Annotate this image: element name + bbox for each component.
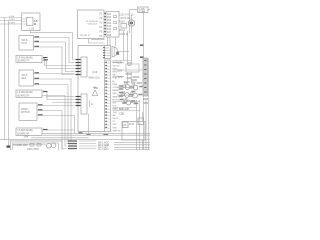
resistor RG1 — [30, 144, 34, 146]
svg-text:VDD 5V: VDD 5V — [113, 65, 121, 67]
wire br h1 — [113, 107, 137, 109]
svg-text:R102 220: R102 220 — [121, 18, 132, 20]
wire from J1 down — [31, 31, 75, 60]
svg-text:C102 10: C102 10 — [120, 34, 129, 36]
svg-text:MOTOR: MOTOR — [113, 99, 121, 101]
wire LP1 out a — [42, 59, 75, 66]
motor block M1 — [19, 103, 37, 121]
wire LP2 out b — [42, 96, 67, 147]
wire bar out 1 — [79, 140, 96, 142]
wire X1 left — [130, 10, 138, 33]
connector CN2 — [81, 94, 87, 114]
svg-text:SENS 2V: SENS 2V — [113, 96, 122, 98]
svg-text:1.2V: 1.2V — [118, 77, 123, 79]
label M1 p1 — [38, 104, 43, 105]
svg-text:R103: R103 — [119, 22, 125, 24]
wire br bh1 — [114, 141, 150, 143]
tiny texts — [14, 9, 146, 152]
small box BR2 — [123, 122, 129, 128]
label LP1 outb — [44, 59, 49, 60]
svg-text:LP-801 (MAIN): LP-801 (MAIN) — [18, 57, 34, 60]
transistor Q1 — [125, 85, 130, 90]
label M1 p3 — [38, 114, 43, 115]
resistor RG2 — [37, 144, 41, 146]
CN1 pins — [76, 59, 81, 60]
label box LP3 — [16, 128, 42, 136]
transistor Q2 — [133, 85, 138, 90]
svg-text:SW-B: SW-B — [22, 40, 28, 42]
svg-text:4.19M: 4.19M — [139, 11, 145, 13]
svg-text:L-05: L-05 — [30, 29, 35, 31]
transistor Q5 — [126, 100, 131, 105]
svg-text:FL DISPLAY: FL DISPLAY — [86, 20, 99, 23]
wire right vbus c — [131, 15, 133, 64]
big box BR — [122, 122, 145, 141]
wire bottom bus — [0, 139, 150, 141]
wire q connect 2 — [117, 94, 133, 96]
svg-text:OSC: OSC — [113, 124, 118, 126]
gate D1 — [112, 47, 118, 57]
svg-text:SOL: SOL — [113, 103, 117, 105]
component on loop top — [128, 63, 131, 66]
svg-text:R15: R15 — [107, 26, 112, 28]
label SW2 p3 — [35, 83, 40, 84]
svg-text:PAUSE: PAUSE — [113, 89, 120, 92]
wire SW1 pin1 — [34, 38, 75, 63]
cluster mid dark marks — [131, 87, 134, 88]
wire amp internal — [13, 144, 46, 146]
wire LP3 out a — [42, 129, 75, 131]
wire br bh3 — [114, 146, 150, 148]
cluster top marks — [124, 82, 129, 83]
svg-text:TUN: TUN — [113, 112, 118, 114]
transistor Q4 — [133, 93, 138, 98]
wire input 1 — [0, 17, 22, 19]
wire B2 to B3 — [104, 12, 106, 14]
svg-text:FIP-9B5 KT: FIP-9B5 KT — [80, 35, 91, 37]
wire br v3 — [142, 112, 144, 122]
wire bus h1 — [42, 133, 150, 135]
svg-text:R12: R12 — [107, 17, 112, 19]
wire br bh4 — [114, 149, 150, 151]
svg-text:AM: AM — [113, 114, 116, 117]
label SW2 p1 — [35, 72, 40, 73]
main connector strip CN5 — [105, 60, 111, 132]
resistor cluster marks — [119, 86, 143, 105]
connector CN-top — [105, 46, 111, 59]
x143 tick labels — [140, 45, 143, 58]
svg-text:SW-A: SW-A — [22, 74, 28, 77]
wire br v2 — [139, 100, 141, 150]
wire br v3b — [142, 140, 144, 150]
component R box in B3 annex — [121, 24, 127, 29]
svg-text:Q801 Q802: Q801 Q802 — [27, 149, 40, 150]
wire LP2 out a — [42, 92, 75, 100]
svg-text:MT/DC: MT/DC — [21, 109, 29, 111]
display block B2 — [78, 10, 105, 39]
junction labels on bus — [79, 132, 83, 133]
svg-text:POWER AMP: POWER AMP — [14, 144, 29, 147]
svg-text:R13: R13 — [107, 20, 112, 22]
svg-text:LP-803 (MAIN): LP-803 (MAIN) — [18, 129, 34, 132]
svg-text:4 BLK: 4 BLK — [9, 16, 15, 18]
ground blob in amp box — [7, 146, 11, 148]
svg-text:R17: R17 — [107, 32, 112, 34]
svg-text:VREF 1V: VREF 1V — [113, 130, 122, 132]
wire LP1 out b — [42, 61, 75, 69]
label SW1 p1 — [35, 36, 40, 37]
wire 1.4V — [31, 137, 89, 139]
small box D2 — [138, 118, 144, 125]
transistor Q3 — [125, 93, 130, 98]
svg-text:BOARD 5P: BOARD 5P — [18, 95, 30, 98]
wire q connect 3 — [130, 102, 137, 104]
wire SW1 pin3 — [34, 47, 75, 75]
label SW2 p2 — [35, 78, 40, 79]
wire bar out 2 — [79, 143, 96, 145]
switch block SW2 — [19, 70, 34, 86]
pin labels dark marks — [7, 16, 81, 149]
CN-top rungs — [105, 48, 110, 56]
svg-text:PLAY: PLAY — [22, 42, 28, 45]
amp block outer box — [11, 141, 63, 153]
label SW1 p3 — [35, 46, 40, 47]
wire br v1 — [136, 100, 138, 150]
svg-text:C101 4.7K 1/2: C101 4.7K 1/2 — [119, 15, 134, 17]
svg-text:BOARD 7P: BOARD 7P — [18, 60, 30, 63]
svg-text:MAIN (1/2): MAIN (1/2) — [89, 77, 100, 80]
label box LP1 — [16, 56, 42, 63]
svg-text:PLAY: PLAY — [113, 77, 118, 80]
svg-text:REC: REC — [22, 78, 27, 80]
wire strip out mid — [113, 101, 140, 103]
svg-text:REC: REC — [113, 75, 118, 77]
svg-text:R-40: R-40 — [129, 124, 135, 126]
strip right labels — [113, 62, 122, 132]
label LP2 p1 — [43, 91, 48, 92]
svg-text:3.3V: 3.3V — [118, 63, 123, 65]
triangle warning — [92, 90, 98, 95]
wire right vbus b — [127, 31, 129, 64]
svg-text:R16: R16 — [107, 29, 112, 31]
svg-text:GND: GND — [113, 127, 118, 129]
svg-text:D101: D101 — [120, 30, 126, 32]
wire M1 pin3 — [37, 116, 75, 134]
main strip internals — [105, 62, 107, 128]
svg-text:TP-1: TP-1 — [94, 87, 98, 89]
wire strip to right b — [113, 61, 125, 63]
svg-text:BOARD 4P: BOARD 4P — [18, 133, 30, 136]
wire strip to right d — [113, 76, 125, 78]
IC05 inner box — [27, 18, 34, 26]
label box LP2 — [16, 90, 42, 98]
wire q connect 1 — [117, 87, 133, 89]
svg-text:KEY1: KEY1 — [113, 68, 118, 70]
label SW1 p2 — [35, 41, 40, 42]
wire strip to right a — [113, 60, 132, 62]
transistor Q11 — [51, 143, 56, 148]
svg-text:FM 0V: FM 0V — [113, 118, 119, 120]
wire strip to right c — [113, 69, 144, 71]
wire SW2 pin2 — [34, 79, 72, 141]
wire br h2 — [113, 110, 140, 112]
capacitor text under loop — [126, 74, 131, 75]
svg-text:MUTE: MUTE — [113, 62, 119, 64]
wire J1 inner stubs — [22, 19, 27, 24]
wire SW2 pin1 — [34, 73, 75, 75]
wire M1 pin2 — [37, 111, 67, 149]
svg-text:C201: C201 — [119, 114, 125, 116]
wire CN2 down — [88, 114, 90, 134]
label LP1 outa — [43, 57, 48, 58]
wire br bh2 — [114, 144, 150, 146]
wire X1 right — [148, 9, 150, 11]
label M1 p2 — [38, 109, 43, 110]
wire vbus below loop — [127, 72, 129, 84]
wire bar out 4 — [79, 148, 96, 150]
svg-text:R201 10K: R201 10K — [119, 109, 130, 111]
bottom pin cluster — [68, 140, 77, 149]
wire CN2 extra — [46, 96, 75, 98]
svg-text:5.0V: 5.0V — [118, 71, 123, 73]
wire right edge v2 — [145, 100, 147, 150]
CN-top left pin dashes — [103, 47, 105, 58]
svg-text:BEAM: BEAM — [113, 108, 119, 111]
wire B2 to CNtop b — [92, 39, 105, 40]
transistor Q10 — [47, 144, 52, 149]
wire right edge v1 — [143, 96, 145, 150]
svg-text:R14: R14 — [107, 23, 112, 25]
small component boxes cluster — [122, 85, 134, 102]
transistor Q101 — [128, 20, 134, 26]
svg-text:2 WHT: 2 WHT — [9, 23, 16, 25]
label LP3 p1 — [43, 129, 48, 130]
svg-text:R18: R18 — [107, 35, 112, 37]
svg-text:CN-4 SDA: CN-4 SDA — [98, 149, 109, 150]
switch block SW1 — [19, 36, 34, 51]
svg-text:KEY2: KEY2 — [113, 72, 118, 74]
wire input 3 — [0, 23, 22, 25]
wire right edge v3 — [148, 58, 150, 150]
B3 left pin dashes — [104, 13, 106, 35]
wire bus h2 — [43, 134, 150, 136]
wire loop box — [126, 64, 139, 72]
wire left bus 2 — [8, 21, 10, 148]
connector CN1 — [81, 57, 87, 77]
wire M1 pin1 — [37, 105, 75, 107]
svg-text:REW: REW — [113, 84, 118, 86]
svg-text:Q-09: Q-09 — [92, 72, 98, 74]
right tall strip dashes — [144, 60, 146, 93]
crystal X1 box — [138, 7, 149, 13]
svg-text:LP-802 (MAIN): LP-802 (MAIN) — [18, 91, 34, 94]
MAIN board outline — [78, 46, 105, 132]
wire input 2 — [0, 20, 22, 22]
svg-text:MOTOR: MOTOR — [21, 112, 30, 114]
wire bar out 3 — [79, 145, 96, 147]
right tall strip — [143, 58, 148, 96]
wire SW1 pin2 — [34, 42, 75, 72]
wire right v x143 — [143, 13, 145, 59]
strip rungs — [105, 60, 111, 131]
wire right vbus a — [123, 31, 125, 61]
connector J1 outer box — [22, 13, 41, 31]
wire left bus 1 — [4, 18, 6, 140]
svg-text:LED: LED — [113, 106, 117, 108]
bracket 4x — [89, 101, 91, 108]
svg-text:STOP: STOP — [113, 87, 119, 89]
wire B2 to CNtop a — [89, 39, 105, 44]
IC B3 box — [106, 12, 119, 38]
wires B3 to board — [108, 37, 116, 46]
svg-text:9-BG-204: 9-BG-204 — [88, 24, 98, 26]
svg-text:3 RED: 3 RED — [9, 19, 15, 21]
svg-text:1.4V: 1.4V — [24, 137, 29, 139]
CN2 pins — [76, 96, 81, 97]
amp inner box — [13, 143, 59, 153]
wire SW2 pin3 — [34, 85, 69, 144]
wire CN2 extra2 — [52, 102, 75, 104]
B3 inner squares — [114, 16, 117, 30]
